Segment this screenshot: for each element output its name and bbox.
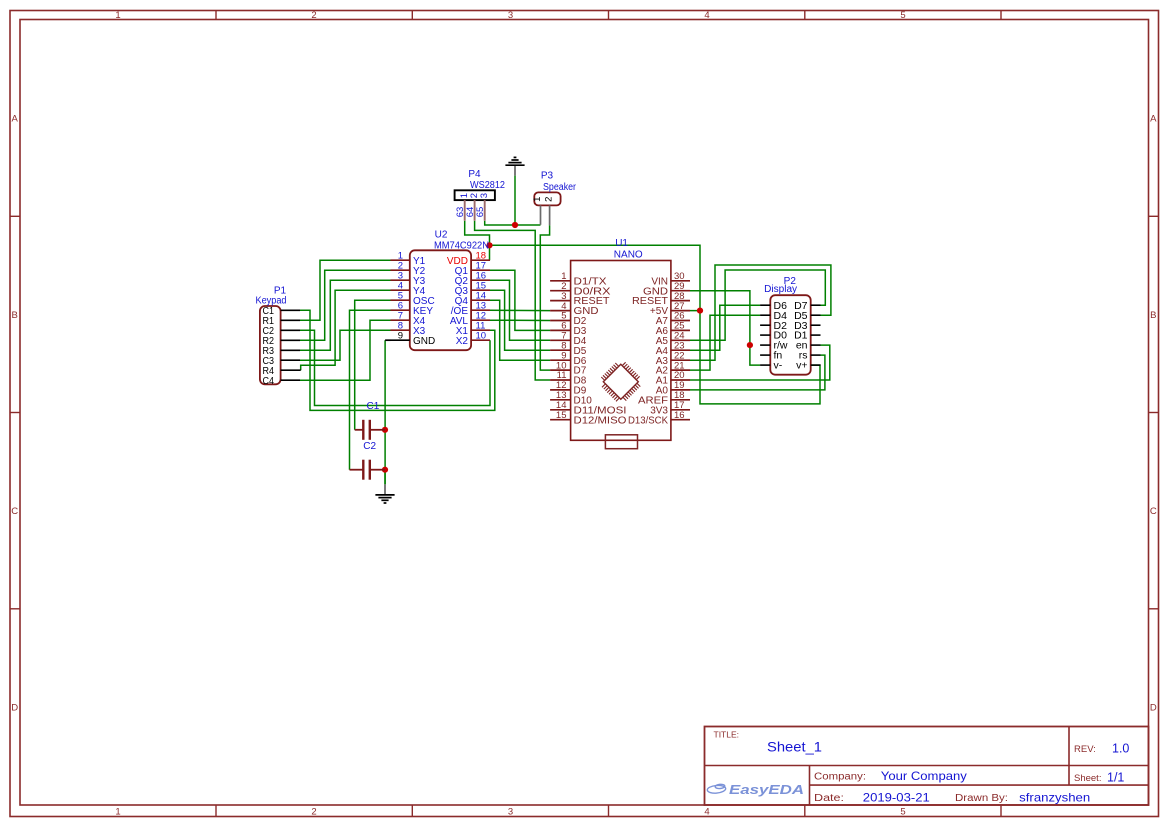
U2 pin 9 GND — [385, 330, 435, 346]
svg-text:WS2812: WS2812 — [470, 180, 505, 191]
junction dot GND at P2 r/w — [747, 342, 753, 348]
row letters right — [1150, 114, 1157, 714]
column numbers bottom — [115, 807, 905, 818]
U1 pin 21 A2 — [656, 360, 690, 376]
svg-text:D12/MISO: D12/MISO — [574, 415, 627, 426]
wire U1 A3 to P2 D5 — [690, 265, 831, 360]
svg-text:5: 5 — [900, 807, 905, 818]
U2 pin 16 Q2 — [455, 270, 490, 286]
svg-text:3: 3 — [508, 807, 513, 818]
U2 pin 14 Q4 — [455, 290, 490, 306]
U2 pin 10 X2 — [456, 330, 490, 346]
wire U2 Q3 to U1 D5 — [490, 290, 550, 350]
svg-text:EasyEDA: EasyEDA — [729, 782, 804, 797]
svg-text:2: 2 — [311, 10, 316, 21]
svg-text:C: C — [11, 506, 18, 517]
U1 pin 30 VIN — [651, 271, 690, 287]
P2 pin D4 — [760, 310, 787, 322]
svg-text:65: 65 — [475, 207, 486, 218]
wire U1 A1 to P2 en — [690, 345, 830, 380]
module U1 NANO body — [571, 238, 671, 440]
title block — [705, 727, 1149, 806]
P2 pin D6 — [760, 300, 787, 312]
U1 pin 13 D10 — [550, 390, 592, 406]
U2 pin 5 OSC — [391, 290, 435, 306]
U1 pin 10 D7 — [550, 360, 587, 376]
svg-text:Company:: Company: — [814, 772, 866, 783]
svg-text:U2: U2 — [435, 230, 448, 241]
P3 pin 1 — [532, 197, 543, 225]
svg-text:A: A — [1150, 114, 1157, 125]
P1 pin R4 — [263, 366, 301, 377]
ground symbol top — [505, 157, 524, 175]
wire U1 A2 to P2 D4 — [690, 315, 760, 370]
U2 pin 12 AVL — [450, 310, 490, 326]
P2 pin D1 — [794, 330, 820, 342]
svg-text:Speaker: Speaker — [543, 182, 577, 193]
P2 pin D0 — [760, 330, 787, 342]
svg-text:C4: C4 — [263, 376, 275, 387]
svg-text:1/1: 1/1 — [1107, 771, 1124, 785]
P4 pin 2 — [465, 193, 480, 221]
P2 pin D5 — [794, 310, 820, 322]
title text — [714, 729, 823, 754]
connector P2 Display body — [764, 276, 811, 375]
svg-text:P3: P3 — [541, 171, 554, 182]
P2 pin en — [796, 340, 821, 352]
svg-text:B: B — [12, 310, 18, 321]
junction dot C2 to GND — [382, 467, 388, 473]
svg-text:2019-03-21: 2019-03-21 — [863, 790, 930, 804]
svg-text:TITLE:: TITLE: — [714, 729, 740, 739]
P1 pin C1 — [263, 306, 301, 317]
svg-text:D13/SCK: D13/SCK — [628, 415, 668, 426]
svg-text:X2: X2 — [456, 336, 469, 347]
connector P4 WS2812 body — [455, 169, 506, 200]
connector P1 Keypad body — [256, 285, 287, 384]
svg-text:U1: U1 — [615, 238, 628, 249]
U1 pin 18 AREF — [638, 390, 690, 406]
junction dot C1 to GND — [382, 427, 388, 433]
U1 pin 8 D5 — [550, 340, 587, 356]
svg-text:Your Company: Your Company — [881, 769, 967, 783]
U1 pin 11 D8 — [550, 370, 587, 386]
P1 pin C4 — [263, 376, 301, 387]
wire U2 AVL to U1 D2 — [490, 319, 550, 321]
U2 pin 6 KEY — [391, 300, 434, 316]
P1 pin R3 — [263, 346, 301, 357]
U1 pin 14 D11/MOSI — [550, 400, 626, 416]
P2 pin v+ — [796, 360, 820, 372]
wire U2 Q2 to U1 D4 — [490, 280, 550, 340]
P2 pin fn — [760, 350, 782, 362]
wire GND symbol to junction — [514, 176, 516, 225]
svg-text:3: 3 — [479, 193, 490, 198]
P2 pin v- — [760, 360, 783, 372]
svg-text:1: 1 — [115, 10, 120, 21]
svg-text:Date:: Date: — [814, 793, 844, 804]
U1 pin 16 D13/SCK — [628, 410, 690, 426]
P1 pin R2 — [263, 336, 301, 347]
wire +5V rail down to P2 v+ — [700, 311, 820, 404]
U1 pin 23 A4 — [656, 340, 690, 356]
U2 pin 7 X4 — [391, 310, 426, 326]
wire U1 GND to P2 r/w and v- — [690, 291, 760, 365]
wire P3 pin2 to U1 D7 — [540, 225, 550, 370]
U2 pin 18 VDD — [447, 250, 490, 266]
wire U2 Q1 to U1 D3 — [490, 270, 550, 330]
wire +5V rail VDD to U1 +5V — [490, 245, 701, 310]
P2 pin D7 — [794, 300, 820, 312]
U2 pin 1 Y1 — [391, 250, 426, 266]
U2 pin 3 Y3 — [391, 270, 426, 286]
svg-text:D: D — [1150, 702, 1157, 713]
wire P1 R4 to U2 Y4 — [301, 290, 391, 370]
svg-text:C2: C2 — [363, 441, 376, 452]
company row — [814, 769, 967, 783]
svg-text:2: 2 — [311, 807, 316, 818]
U1 chip glyph (rotated QFP) — [601, 362, 640, 401]
junction dot +5V at U1 pin27 — [697, 308, 703, 314]
U1 pin 26 A7 — [656, 311, 690, 327]
svg-text:10: 10 — [476, 330, 487, 341]
wire P1 C3 to U2 X3 — [300, 330, 391, 360]
wire U2 GND to ground — [384, 340, 386, 484]
P3 pin 2 — [544, 197, 555, 226]
svg-text:sfranzyshen: sfranzyshen — [1019, 790, 1090, 804]
svg-text:REV:: REV: — [1074, 744, 1096, 755]
wire P1 R2 to U2 Y2 — [300, 270, 391, 340]
IC U2 MM74C922N body — [410, 230, 489, 351]
U1 pin 19 A0 — [656, 380, 690, 396]
U2 pin 11 X1 — [456, 320, 490, 336]
svg-text:v-: v- — [774, 360, 783, 372]
U1 pin 7 D4 — [550, 331, 587, 347]
svg-text:16: 16 — [674, 410, 685, 421]
wire C2 bottom to ground — [384, 470, 386, 485]
U1 pin 6 D3 — [550, 321, 587, 337]
connector P3 Speaker body — [534, 171, 576, 206]
sheet cell — [1074, 771, 1124, 785]
EasyEDA logo — [707, 782, 804, 797]
wire U1 A5 to P2 D7 — [690, 270, 825, 340]
U1 pin 9 D6 — [550, 350, 587, 366]
P4 pin 1 — [455, 193, 470, 221]
svg-text:1: 1 — [115, 807, 120, 818]
wire P4 pin1 to VDD rail — [465, 221, 490, 261]
svg-text:Drawn By:: Drawn By: — [955, 793, 1008, 804]
U1 pin 1 D1/TX — [550, 271, 607, 287]
U2 pin 17 Q1 — [455, 260, 490, 276]
capacitor C2 — [350, 441, 386, 480]
U1 pin 27 +5V — [650, 301, 690, 317]
U1 pin 22 A3 — [656, 350, 690, 366]
wire P1 R1 to U2 Y1 — [300, 260, 391, 320]
column numbers top — [115, 10, 905, 21]
U2 pin 4 Y4 — [391, 280, 426, 296]
wire U2 KEY to C2 — [350, 310, 391, 470]
wire P1 C1 to U2 X1 — [300, 310, 495, 410]
U1 pin 5 D2 — [550, 311, 587, 327]
wire P1 C4 to U2 X4 — [300, 320, 391, 380]
P1 pin C2 — [263, 326, 301, 337]
U1 pin 28 RESET — [632, 291, 690, 307]
svg-text:Sheet_1: Sheet_1 — [767, 739, 822, 755]
junction dot ground net — [512, 222, 518, 228]
U1 USB connector glyph — [605, 435, 637, 449]
P1 pin R1 — [263, 316, 301, 327]
svg-text:9: 9 — [398, 330, 403, 341]
svg-text:3: 3 — [508, 10, 513, 21]
svg-text:B: B — [1150, 310, 1156, 321]
wire P4 pin3 to GND net / P3 pin1 — [485, 221, 541, 225]
P2 pin D3 — [794, 320, 820, 332]
U1 pin 4 GND — [550, 301, 598, 317]
P2 pin r/w — [760, 340, 788, 352]
svg-text:4: 4 — [704, 10, 709, 21]
P2 pin D2 — [760, 320, 787, 332]
svg-text:C1: C1 — [367, 401, 380, 412]
svg-text:Display: Display — [764, 284, 797, 295]
svg-text:15: 15 — [556, 410, 567, 421]
U1 pin 25 A6 — [656, 321, 690, 337]
wire U2 OSC to C1 — [355, 300, 391, 430]
U1 pin 15 D12/MISO — [550, 410, 627, 426]
wire U2 Q4 to U1 D6 — [490, 300, 550, 360]
P4 pin 3 — [475, 193, 490, 221]
svg-text:5: 5 — [900, 10, 905, 21]
wire P1 R3 to U2 Y3 — [300, 280, 391, 350]
svg-text:A: A — [12, 114, 19, 125]
U2 pin 13 /OE — [451, 300, 490, 316]
P2 pin rs — [799, 350, 821, 362]
svg-text:P4: P4 — [468, 169, 481, 180]
svg-text:Sheet:: Sheet: — [1074, 773, 1101, 784]
capacitor C1 — [355, 401, 385, 440]
svg-text:GND: GND — [413, 336, 435, 347]
U1 pin 3 RESET — [550, 291, 609, 307]
wire U1 A0 to P2 rs — [690, 355, 825, 390]
wire U1 A4 to P2 D6 — [690, 305, 760, 350]
svg-text:1.0: 1.0 — [1112, 742, 1129, 756]
rev text — [1074, 742, 1129, 756]
svg-text:NANO: NANO — [614, 249, 643, 260]
wire P1 C2 to U2 X2 — [300, 330, 490, 405]
U1 pin 2 D0/RX — [550, 281, 611, 297]
svg-text:2: 2 — [544, 197, 555, 202]
svg-text:v+: v+ — [796, 360, 807, 372]
U1 pin 12 D9 — [550, 380, 587, 396]
U1 pin 20 A1 — [656, 370, 690, 386]
U2 pin 15 Q3 — [455, 280, 490, 296]
P1 pin C3 — [263, 356, 301, 367]
svg-text:C: C — [1150, 506, 1157, 517]
row letters left — [11, 114, 18, 714]
U1 pin 17 3V3 — [650, 400, 690, 416]
wire P4 pin2 to U1 D8 — [475, 221, 550, 380]
date row — [814, 790, 1090, 804]
wire U2 /OE to U1 GND — [490, 309, 550, 311]
ground symbol bottom — [375, 484, 394, 503]
svg-text:1: 1 — [532, 197, 543, 202]
U1 pin 24 A5 — [656, 331, 690, 347]
U2 pin 8 X3 — [391, 320, 426, 336]
U1 pin 29 GND — [643, 281, 690, 297]
junction dot VDD rail — [486, 242, 492, 248]
svg-text:D: D — [11, 702, 18, 713]
U2 pin 2 Y2 — [391, 260, 426, 276]
svg-text:4: 4 — [704, 807, 709, 818]
